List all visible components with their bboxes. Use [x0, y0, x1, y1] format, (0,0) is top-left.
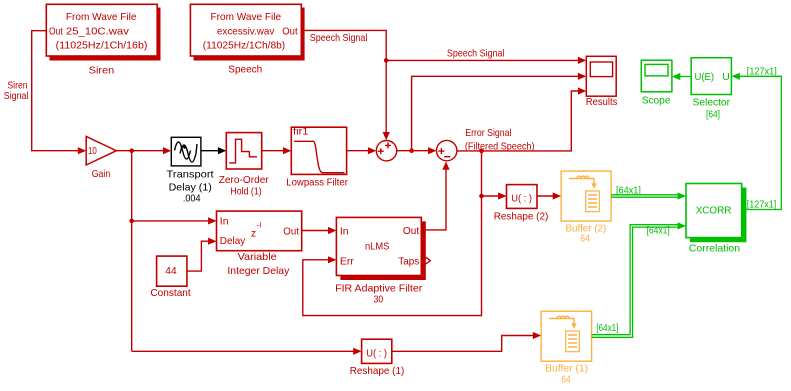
- svg-text:Out: Out: [283, 226, 299, 238]
- wire Sum2 out (Error Signal) to Results input 3: [457, 91, 579, 151]
- wire Speech branch to Results input 1: [386, 59, 579, 61]
- svg-text:XCORR: XCORR: [696, 205, 732, 217]
- svg-text:.004: .004: [183, 193, 201, 205]
- block Scope: [641, 60, 672, 92]
- junction to VID In: [129, 219, 134, 224]
- svg-text:Delay: Delay: [220, 235, 246, 247]
- block Zero-Order Hold: [226, 133, 261, 169]
- wire error trunk down to FIR Err input: [303, 151, 482, 316]
- svg-text:Reshape (1): Reshape (1): [350, 365, 405, 377]
- svg-text:Err: Err: [340, 256, 355, 268]
- block XCORR (Correlation): [686, 184, 746, 243]
- svg-text:Reshape (2): Reshape (2): [494, 211, 549, 223]
- svg-text:25_10C.wav: 25_10C.wav: [66, 25, 130, 37]
- svg-text:Variable: Variable: [238, 251, 277, 263]
- block Buffer (1): [541, 311, 591, 361]
- svg-text:Out: Out: [282, 25, 297, 37]
- junction error to reshape2: [479, 194, 484, 199]
- block Results (scope): [586, 56, 616, 96]
- svg-text:U( : ): U( : ): [366, 348, 387, 360]
- svg-text:U(E): U(E): [695, 71, 715, 83]
- svg-text:(11025Hz/1Ch/8b): (11025Hz/1Ch/8b): [203, 40, 285, 52]
- wire to Variable Integer Delay In: [132, 220, 210, 222]
- svg-text:Zero-Order: Zero-Order: [219, 174, 269, 186]
- svg-text:Gain: Gain: [92, 168, 111, 180]
- block FIR Adaptive Filter (nLMS): [336, 217, 430, 280]
- svg-text:Speech Signal: Speech Signal: [310, 32, 368, 44]
- svg-text:(11025Hz/1Ch/16b): (11025Hz/1Ch/16b): [56, 40, 148, 52]
- svg-text:[64x1]: [64x1]: [647, 224, 670, 236]
- wire Transport Delay to Zero-Order Hold (black): [201, 150, 219, 152]
- block Reshape (1): [362, 339, 392, 363]
- svg-text:Out: Out: [49, 25, 63, 37]
- wire Buffer (2) to XCORR (vector, double line): [611, 194, 681, 196]
- svg-text:30: 30: [374, 293, 384, 305]
- svg-text:nLMS: nLMS: [365, 240, 389, 252]
- svg-text:10: 10: [88, 145, 97, 157]
- block Selector: [691, 58, 731, 95]
- svg-text:Taps: Taps: [398, 256, 419, 268]
- junction at gain output: [129, 148, 134, 153]
- sum2 (subtract: error): [437, 140, 457, 160]
- svg-text:z: z: [251, 228, 256, 240]
- svg-text:[64x1]: [64x1]: [616, 184, 641, 196]
- svg-text:Selector: Selector: [693, 96, 731, 108]
- wire Lowpass Filter to Sum1: [347, 150, 369, 152]
- svg-text:Buffer (1): Buffer (1): [545, 362, 588, 374]
- svg-text:Integer Delay: Integer Delay: [227, 265, 290, 277]
- block Lowpass Filter (fir1): [291, 126, 346, 175]
- wire Sum1 to Sum2: [397, 150, 429, 152]
- wire mixed signal up to Results input 2: [412, 76, 579, 150]
- junction between sums: [409, 148, 414, 153]
- svg-text:Error Signal: Error Signal: [465, 127, 511, 139]
- wire error to Reshape (2): [482, 195, 500, 197]
- junction error signal: [479, 149, 484, 154]
- junction on speech wire: [384, 58, 389, 63]
- block Constant (44): [157, 256, 187, 286]
- svg-text:[127x1]: [127x1]: [747, 199, 777, 211]
- svg-text:64: 64: [580, 233, 590, 245]
- wire ZOH to Lowpass Filter: [262, 150, 284, 152]
- svg-text:Transport: Transport: [167, 168, 214, 180]
- svg-text:Constant: Constant: [150, 287, 190, 299]
- svg-text:Scope: Scope: [642, 94, 671, 106]
- svg-text:fir1: fir1: [293, 126, 309, 138]
- svg-text:Correlation: Correlation: [689, 243, 740, 255]
- svg-text:From Wave File: From Wave File: [66, 11, 137, 23]
- wire bottom to Reshape (1): [132, 350, 355, 352]
- gain block (triangle): [86, 136, 116, 165]
- wire Reshape (1) to Buffer (1): [392, 336, 534, 352]
- svg-text:Speech: Speech: [228, 64, 262, 76]
- svg-text:64: 64: [561, 374, 570, 386]
- svg-text:Siren: Siren: [89, 64, 115, 76]
- sum1 (add speech + siren): [376, 141, 396, 161]
- svg-text:Hold (1): Hold (1): [230, 186, 261, 198]
- svg-text:U( : ): U( : ): [511, 193, 532, 205]
- svg-text:(Filtered Speech): (Filtered Speech): [465, 141, 535, 153]
- svg-text:[64x1]: [64x1]: [596, 322, 618, 334]
- wire XCORR out to Selector (127x1): [738, 76, 781, 209]
- wire Selector to Scope: [679, 76, 692, 78]
- wire Siren out to Gain: [32, 31, 79, 151]
- wire Reshape (2) to Buffer (2): [537, 195, 554, 197]
- svg-text:-i: -i: [257, 220, 262, 230]
- svg-text:In: In: [220, 215, 229, 227]
- svg-text:[127x1]: [127x1]: [747, 65, 777, 77]
- wire FIR Out up to Sum2 minus input: [421, 169, 446, 230]
- svg-text:excessiv.wav: excessiv.wav: [217, 25, 275, 37]
- block Buffer (2): [561, 171, 611, 221]
- wire trunk down from gain junction: [131, 151, 133, 352]
- svg-text:Results: Results: [586, 96, 618, 108]
- wire Constant to VID Delay port: [187, 241, 210, 271]
- wire VID Out to FIR In: [302, 230, 329, 232]
- wire Gain to Transport Delay: [116, 150, 164, 152]
- Taps unconnected output port chevron: [426, 257, 431, 264]
- block Siren (From Wave File source): [46, 4, 160, 60]
- svg-text:U: U: [722, 71, 730, 83]
- block Reshape (2): [507, 185, 538, 209]
- block Transport Delay (black): [171, 137, 201, 166]
- wire Speech out to Sum1 top: [301, 30, 386, 133]
- svg-text:Lowpass Filter: Lowpass Filter: [286, 176, 348, 188]
- svg-text:Signal: Signal: [4, 90, 29, 102]
- svg-text:Speech Signal: Speech Signal: [447, 48, 505, 60]
- wire Buffer (1) to XCORR input 2 (vector, double line): [592, 225, 681, 335]
- svg-text:From Wave File: From Wave File: [211, 11, 282, 23]
- svg-text:In: In: [340, 226, 349, 238]
- block Variable Integer Delay: [217, 211, 302, 251]
- svg-text:Out: Out: [403, 225, 419, 237]
- block Speech (From Wave File source): [190, 4, 304, 60]
- svg-text:[64]: [64]: [706, 108, 720, 120]
- svg-text:44: 44: [165, 265, 176, 277]
